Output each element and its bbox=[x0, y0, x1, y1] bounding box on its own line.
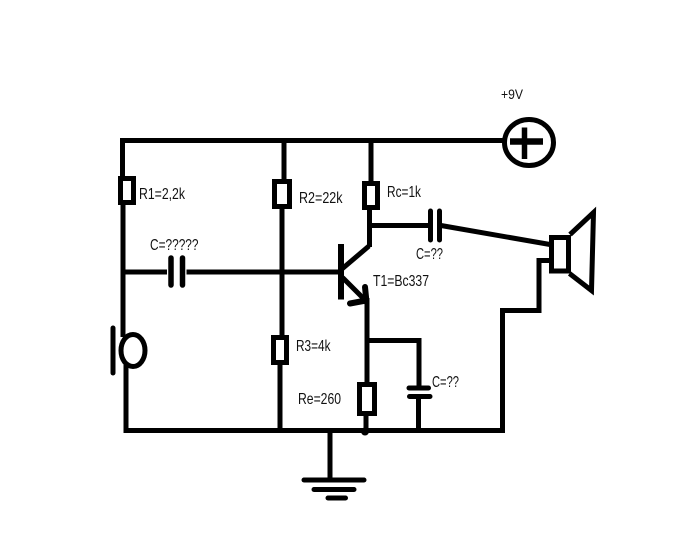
wire R1 to microphone bbox=[121, 203, 126, 337]
wire Rc to collector node bbox=[367, 206, 372, 247]
capacitor C2 bbox=[431, 211, 440, 240]
ground bbox=[304, 429, 364, 498]
wire branch to C3 top plate bbox=[417, 338, 422, 386]
resistor Rc bbox=[365, 184, 378, 208]
svg-text:+9V: +9V bbox=[501, 86, 524, 102]
microphone MIC1 bbox=[113, 328, 145, 373]
svg-text:Re=260: Re=260 bbox=[298, 391, 341, 408]
wire speaker return bbox=[503, 258, 550, 431]
svg-text:C=?????: C=????? bbox=[150, 237, 199, 254]
svg-text:C=??: C=?? bbox=[432, 374, 459, 391]
+9V supply V1 bbox=[505, 120, 554, 166]
wire input node to C1 bbox=[121, 270, 167, 275]
svg-text:C=??: C=?? bbox=[416, 246, 443, 263]
junction Re / bottom rail bbox=[361, 428, 369, 436]
wire top supply rail bbox=[121, 138, 505, 143]
capacitor C3 bbox=[409, 388, 430, 397]
speaker LS1 bbox=[552, 213, 594, 291]
transistor T1 bbox=[341, 244, 369, 304]
svg-text:Rc=1k: Rc=1k bbox=[387, 184, 422, 201]
capacitor C1 bbox=[171, 258, 183, 285]
wire emitter branch to C3 bbox=[367, 338, 419, 343]
wire emitter to Re bbox=[365, 298, 370, 385]
resistor R1 bbox=[121, 179, 134, 203]
resistor Re bbox=[360, 385, 375, 414]
resistor R3 bbox=[274, 338, 287, 363]
wire rail to Rc bbox=[369, 138, 374, 184]
wire bottom rail bbox=[124, 428, 506, 433]
wire R2 to R3 bbox=[280, 206, 285, 338]
wire Re to bottom rail bbox=[364, 412, 369, 431]
wire C3 to bottom rail bbox=[416, 395, 421, 431]
svg-text:R1=2,2k: R1=2,2k bbox=[139, 186, 186, 203]
wire R3 to bottom rail bbox=[278, 362, 283, 431]
wire microphone to bottom rail bbox=[124, 365, 129, 431]
wire C2 to speaker bbox=[441, 226, 550, 245]
wire collector node to C2 bbox=[367, 223, 429, 228]
wire rail to R1 bbox=[120, 138, 125, 178]
svg-text:R3=4k: R3=4k bbox=[296, 338, 331, 355]
wire rail to R2 bbox=[282, 138, 287, 182]
resistor R2 bbox=[275, 182, 290, 207]
svg-text:R2=22k: R2=22k bbox=[299, 190, 343, 207]
svg-text:T1=Bc337: T1=Bc337 bbox=[373, 273, 429, 290]
wire C1 to base bbox=[187, 270, 342, 275]
